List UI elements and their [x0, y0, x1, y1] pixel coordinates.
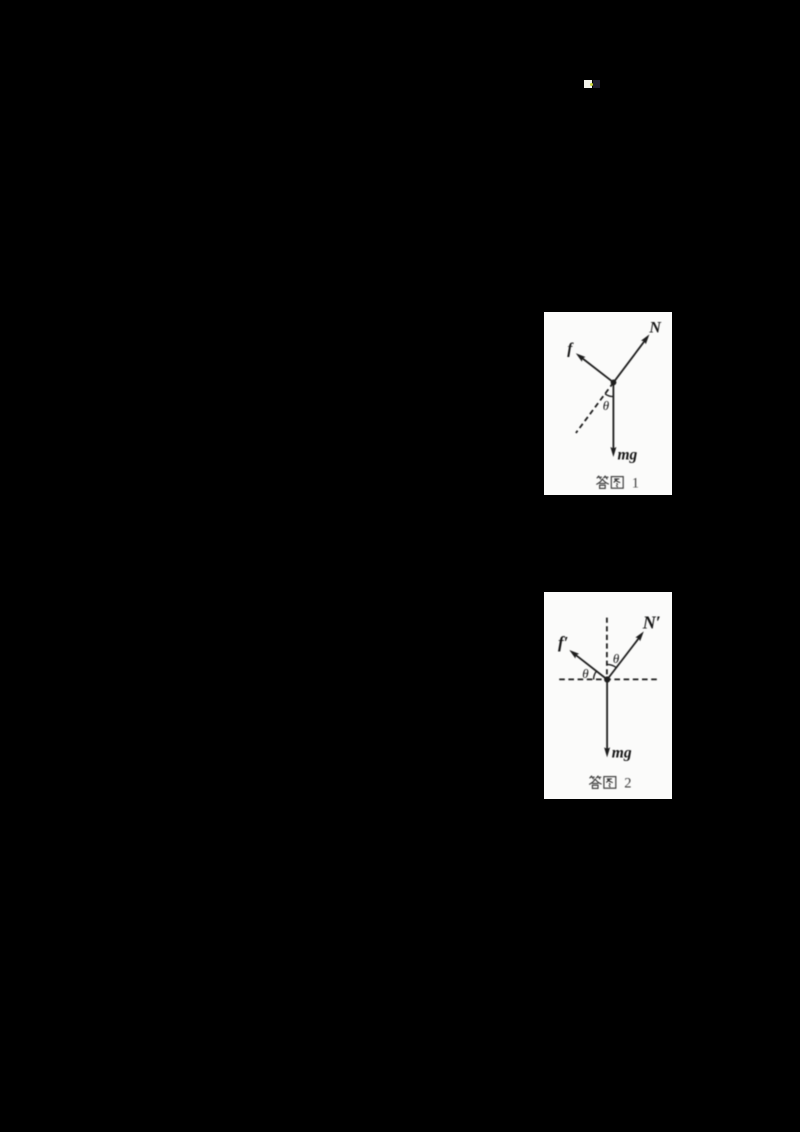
- node: central dot: [611, 380, 617, 386]
- node: central dot: [604, 676, 610, 682]
- caption: hanzi TU (figure): [611, 477, 623, 489]
- wire: force f' line: [576, 655, 608, 680]
- caption: hanzi DA (answer): [597, 476, 609, 488]
- svg-text:1: 1: [632, 475, 639, 491]
- caption: hanzi DA (answer): [590, 776, 602, 788]
- horizontal dashed line: [559, 678, 659, 680]
- arrowhead f: [576, 353, 586, 362]
- yellow-green dot on icon: [590, 83, 593, 86]
- svg-text:f′: f′: [558, 633, 568, 652]
- angle arc theta: [605, 394, 614, 397]
- wire: force f line: [582, 358, 614, 382]
- svg-text:mg: mg: [612, 745, 632, 762]
- svg-text:f: f: [567, 341, 574, 358]
- wire: force mg line: [612, 382, 614, 449]
- arrowhead f': [569, 650, 579, 659]
- arrowhead mg: [604, 747, 610, 757]
- caption: hanzi TU (figure): [604, 777, 616, 789]
- arrowhead N: [641, 334, 649, 344]
- arrowhead N': [635, 631, 643, 641]
- svg-text:N′: N′: [642, 613, 661, 633]
- answer figure 1 white panel: [544, 312, 672, 495]
- wire: force N' line: [607, 637, 639, 679]
- wire: force N line: [614, 340, 646, 382]
- dashed extension of N below center: [576, 382, 614, 433]
- angle arc theta left: [594, 671, 597, 679]
- svg-text:θ: θ: [603, 398, 610, 413]
- angle arc theta right: [607, 664, 616, 667]
- arrowhead mg: [610, 447, 616, 457]
- answer figure 2 white panel: [544, 592, 672, 799]
- svg-text:θ: θ: [613, 651, 620, 666]
- svg-text:N: N: [648, 319, 662, 336]
- dark navy square of icon: [593, 80, 600, 88]
- svg-text:mg: mg: [618, 447, 638, 464]
- svg-text:θ: θ: [582, 666, 589, 681]
- tiny white thumbnail icon: [584, 80, 592, 88]
- svg-text:2: 2: [624, 776, 631, 792]
- vertical dashed line: [606, 618, 608, 680]
- wire: force mg line: [606, 680, 608, 750]
